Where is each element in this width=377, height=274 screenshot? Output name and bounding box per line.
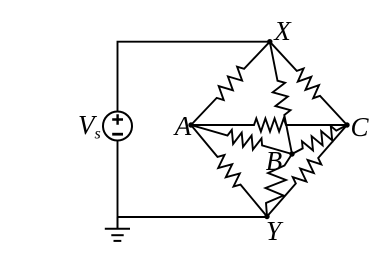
svg-text:X: X bbox=[273, 16, 292, 46]
node Y junction dot bbox=[264, 214, 269, 219]
minus sign of source bbox=[112, 133, 123, 136]
wire bottom: source to ground junction to node Y bbox=[118, 141, 268, 218]
svg-text:Y: Y bbox=[266, 216, 284, 246]
svg-text:A: A bbox=[173, 111, 192, 141]
resistor A-Y bbox=[191, 125, 267, 217]
wire top: source to node X bbox=[118, 42, 270, 112]
ground symbol bbox=[105, 217, 130, 241]
node B junction dot bbox=[289, 151, 294, 156]
voltage source VS circle bbox=[103, 112, 132, 141]
resistor X-B bbox=[270, 42, 292, 154]
svg-text:Vs: Vs bbox=[78, 110, 101, 143]
node X junction dot bbox=[267, 39, 272, 44]
svg-text:C: C bbox=[350, 112, 369, 142]
node A junction dot bbox=[188, 122, 193, 127]
resistor A-B bbox=[191, 125, 292, 154]
resistor B-Y bbox=[266, 154, 293, 217]
node C junction dot bbox=[344, 122, 349, 127]
plus sign of source bbox=[112, 114, 123, 125]
resistor X-A bbox=[191, 42, 270, 125]
svg-text:B: B bbox=[266, 146, 283, 176]
resistor C-Y bbox=[267, 125, 347, 217]
resistor B-C bbox=[292, 125, 347, 154]
resistor X-C bbox=[270, 42, 347, 125]
resistor A-C bbox=[191, 118, 347, 131]
